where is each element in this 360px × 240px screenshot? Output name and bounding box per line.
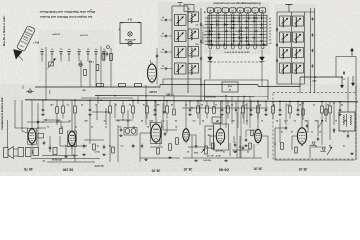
rail D segment — [182, 107, 268, 109]
svg-text:a3: a3 — [162, 33, 164, 35]
ground below Cd190 — [189, 113, 191, 115]
switch contact bar — [211, 33, 212, 36]
switch key hook 6 — [246, 13, 249, 14]
capacitor C30 — [164, 19, 166, 21]
wire drop x243 — [242, 101, 244, 106]
svg-text:+ A18: + A18 — [33, 42, 40, 45]
resistor R75 — [169, 144, 172, 151]
wire x200 v — [199, 103, 201, 125]
wire x75 v — [74, 119, 76, 163]
junction dot dial left — [121, 22, 123, 24]
switch contact bar — [240, 37, 243, 38]
svg-text:ant: ant — [22, 85, 25, 88]
switch coupling dashed line — [210, 61, 262, 63]
switch contact bar — [260, 41, 263, 42]
grid wire horizontal — [205, 27, 268, 29]
wire tube anode — [71, 100, 73, 129]
svg-text:J0 48: J0 48 — [215, 155, 221, 158]
RF coil box L24 — [293, 63, 304, 73]
wire left column e — [110, 48, 112, 87]
junction dot bl — [42, 121, 43, 122]
resistor R99 — [251, 130, 253, 136]
resistor R71 — [93, 144, 96, 150]
capacitor stub C13 — [68, 52, 70, 62]
ground g1 — [83, 153, 85, 155]
wire below resistor x243 — [242, 113, 244, 119]
svg-text:4k7: 4k7 — [50, 104, 53, 107]
wire x254 v — [253, 144, 255, 158]
switch contact bar — [260, 34, 263, 35]
svg-text:5M: 5M — [82, 90, 85, 92]
wire left column a — [45, 47, 47, 100]
grid wire horizontal — [205, 37, 268, 39]
tube V4 screen box — [151, 123, 162, 144]
svg-text:20: 20 — [327, 105, 329, 107]
capacitor C60 — [37, 120, 39, 122]
switch contact bar — [255, 17, 258, 18]
wire x163 v — [162, 103, 164, 130]
wire array drop — [299, 84, 301, 93]
wire x241 v — [240, 112, 242, 158]
svg-text:2M: 2M — [315, 121, 318, 123]
resistor R61 — [56, 107, 59, 114]
antenna triangle symbol — [14, 50, 23, 60]
capacitor C67 — [235, 108, 237, 110]
wire below resistor x167 — [166, 113, 168, 119]
capacitor C64 — [132, 144, 134, 146]
switch contact bar — [233, 20, 234, 23]
svg-text:25: 25 — [201, 105, 203, 107]
svg-text:0m: 0m — [188, 9, 191, 11]
wire cap lead 3 — [161, 68, 164, 70]
svg-text:90: 90 — [147, 126, 149, 128]
switch contact bar — [211, 40, 212, 43]
wire below resistor x198 — [197, 113, 199, 119]
output transformer box — [339, 112, 355, 131]
mixer box M1 — [222, 82, 238, 92]
wire array bottom a — [277, 83, 305, 85]
capacitor C50 — [276, 28, 278, 30]
wire below resistor x207 — [206, 113, 208, 119]
FM feed vertical right — [355, 57, 357, 94]
junction dot cap drop — [279, 101, 281, 103]
RF coil box L12 — [280, 32, 291, 42]
capacitor Cd266 — [265, 108, 267, 110]
wire h130 g — [246, 129, 258, 131]
junction dot out — [274, 143, 275, 144]
svg-text:MM: MM — [208, 129, 212, 131]
wire h120 f — [115, 119, 133, 121]
chain top label box — [184, 5, 194, 12]
wire cap lead 2 — [161, 51, 164, 53]
IF coil box F2 — [175, 31, 187, 42]
wire array rail a — [276, 12, 278, 84]
grid bottom hook — [239, 45, 242, 49]
capacitor C98 — [245, 138, 247, 140]
switch contact bar — [224, 23, 225, 26]
ground g7 — [225, 159, 227, 161]
switch contact bar — [246, 37, 247, 40]
tube V2 — [28, 129, 36, 143]
rail C (AVC line) — [95, 96, 268, 97]
wire h158 l — [140, 157, 180, 159]
wire left column b — [80, 60, 82, 87]
wire av — [229, 143, 231, 156]
RF coil box L23 — [293, 48, 304, 58]
wire x237 v — [236, 112, 238, 158]
ground below Cd340 — [339, 113, 341, 115]
wire dial left notch — [119, 28, 121, 31]
dial lamp box outline — [120, 23, 141, 44]
grid wire vertical pair — [246, 15, 248, 45]
wire drop c x251 — [250, 101, 252, 107]
junction dot cap drop — [154, 100, 156, 102]
wire drop x207 — [206, 101, 208, 106]
svg-text:60: 60 — [109, 145, 111, 147]
resistor R22 — [96, 65, 99, 71]
capacitor C31 — [164, 35, 166, 37]
wire x167 v — [166, 120, 168, 133]
capacitor C74 — [141, 144, 143, 146]
resistor R92 — [295, 147, 298, 153]
grid wire vertical pair — [231, 15, 233, 45]
wire speaker riser — [7, 120, 9, 148]
svg-text:a3: a3 — [185, 105, 187, 107]
junction dot rail 2 — [341, 76, 343, 78]
svg-text:O6 N8: O6 N8 — [219, 168, 229, 172]
wire grid to bus — [261, 62, 263, 86]
svg-text:4n7 1M: 4n7 1M — [207, 155, 214, 158]
switch contact bar — [239, 30, 240, 33]
pot with wiper (left) — [29, 90, 32, 93]
resistor Rd110 — [109, 106, 112, 113]
switch contact bar — [253, 21, 256, 22]
wire tube anode — [257, 101, 259, 127]
svg-text:A B C: A B C — [89, 61, 95, 64]
bottom wire segment left2 — [42, 155, 78, 157]
wire x232 v — [231, 96, 233, 124]
capacitor Cd155 — [154, 108, 156, 110]
switch key box K4 — [230, 8, 236, 13]
wire drop c x298 — [297, 101, 299, 107]
capacitor C51 — [276, 43, 278, 45]
capacitor C63 — [120, 128, 122, 130]
osc coil box G1 — [188, 12, 199, 22]
wire h150 g — [232, 149, 250, 151]
wire x348 — [347, 77, 349, 112]
wire x334 v — [333, 103, 335, 125]
switch contact bar — [233, 40, 234, 43]
svg-text:bei Abgleich mit 468 kHz und S: bei Abgleich mit 468 kHz und Sender — [39, 15, 92, 19]
switch contact bar — [241, 27, 242, 30]
switch contact bar — [211, 27, 212, 30]
wire drop x198 — [197, 101, 199, 106]
junction dot on rail A — [74, 99, 76, 101]
junction dot g2 — [239, 146, 240, 147]
svg-text:4n: 4n — [41, 48, 43, 51]
resistor R65 — [157, 148, 160, 154]
ground below Cd280 — [279, 113, 281, 115]
FM down arrow — [352, 76, 354, 84]
resistor Rd123 — [122, 106, 125, 113]
svg-text:4M: 4M — [208, 134, 211, 137]
svg-text:40: 40 — [171, 104, 173, 107]
wire drop x147 — [146, 101, 148, 106]
wire below resistor x123 — [122, 113, 124, 119]
wire x322 v2 — [321, 119, 323, 146]
trimmer arrow T1 — [48, 59, 56, 69]
resistor R68 — [325, 109, 328, 115]
wire cap lead 1 — [161, 35, 164, 37]
svg-text:0LM0: 0LM0 — [149, 90, 157, 94]
tube V3 outline box — [68, 131, 77, 147]
diode D1 — [312, 142, 315, 145]
wire drop x123 — [122, 100, 124, 106]
junction dot f4 — [145, 95, 146, 96]
switch contact bar — [218, 33, 219, 36]
capacitor C83 — [242, 146, 244, 148]
junction dot r1 — [225, 95, 226, 96]
wire below resistor x75 — [74, 113, 76, 119]
wire antenna lead — [19, 56, 24, 61]
output transformer box b — [26, 148, 32, 157]
wire h112 f — [92, 111, 110, 113]
tube V1 (EC92) — [148, 64, 157, 82]
transformer box c — [33, 148, 39, 156]
svg-text:ELLIYO: ELLIYO — [95, 164, 104, 167]
grid wire horizontal — [205, 40, 268, 42]
svg-text:40: 40 — [87, 48, 89, 51]
wire h147 g — [188, 146, 204, 148]
junction dot cap drop — [250, 100, 252, 102]
resistor Rd75 — [74, 106, 77, 113]
junction dot cap drop — [339, 101, 341, 103]
wire drop c x190 — [189, 101, 191, 108]
RF coil box L21 — [293, 16, 304, 26]
wire tube anode — [31, 100, 33, 127]
wire x348 low — [347, 131, 349, 134]
svg-text:J8 J0: J8 J0 — [152, 169, 161, 173]
switch key hook 4 — [231, 13, 234, 14]
wire x90 v — [89, 115, 91, 144]
wire v8 in — [292, 135, 297, 137]
wire drop x330 — [329, 102, 331, 106]
wire x234 v — [233, 136, 235, 143]
junction dot on rail A — [100, 99, 102, 101]
wire x240 v — [239, 136, 241, 158]
wire x164 — [163, 96, 165, 109]
bottom rail mid — [183, 157, 262, 159]
capacitor C96 — [43, 141, 45, 143]
switch contact bar — [247, 44, 250, 45]
junction dot on rail A — [132, 100, 134, 102]
svg-text:2M: 2M — [157, 105, 160, 107]
svg-text:a5: a5 — [75, 126, 77, 128]
wire tube anode — [220, 101, 222, 127]
wire tube anode — [185, 101, 187, 127]
wire v4 grid — [140, 132, 151, 134]
wire drop x167 — [166, 101, 168, 106]
wire ladder rail left — [171, 6, 173, 93]
wire drop c x155 — [154, 101, 156, 108]
junction dot on rail A — [321, 101, 323, 103]
svg-text:22: 22 — [85, 145, 87, 147]
wire output left — [274, 128, 276, 160]
wire below resistor x147 — [146, 113, 148, 119]
wire x57 v — [56, 100, 58, 107]
switch key box K7 — [252, 8, 258, 13]
switch key hook 2 — [217, 13, 220, 14]
switch contact bar — [209, 30, 210, 33]
junction dot f1 — [105, 111, 106, 112]
svg-text:33: 33 — [91, 126, 93, 128]
wire drop c x222 — [221, 101, 223, 108]
junction dot cap drop — [297, 101, 299, 103]
wire x303 v — [302, 103, 304, 120]
switch contact bar — [233, 33, 234, 36]
resistor Rd63 — [62, 106, 65, 113]
switch contact bar — [238, 21, 241, 22]
svg-text:12: 12 — [129, 105, 131, 107]
wire drop x273 — [272, 101, 274, 106]
svg-text:a6: a6 — [269, 34, 271, 36]
tube V6 screen box — [214, 124, 229, 150]
svg-text:0,1: 0,1 — [67, 105, 70, 107]
svg-text:a8: a8 — [299, 105, 301, 107]
switch contact bar — [224, 43, 225, 46]
wire x98 v2 — [97, 96, 99, 104]
wire left column d — [100, 46, 102, 87]
resistor R67 — [302, 109, 305, 115]
wire array rail b — [291, 12, 293, 84]
FM dipole arrow up — [351, 49, 353, 57]
grid wire vertical pair — [238, 15, 240, 45]
resistor R24 — [102, 53, 105, 60]
junction dot on rail A — [197, 100, 199, 102]
ground below Cd298 — [297, 113, 299, 115]
resistor Rd273 — [272, 106, 275, 113]
rail A (HT bus) — [25, 100, 358, 102]
wire h147 r — [311, 146, 326, 148]
wire drop c x340 — [339, 102, 341, 108]
junction dot f2 — [122, 119, 123, 120]
wire V3 bottom — [71, 149, 73, 156]
paper background — [0, 0, 360, 176]
capacitor C100 — [156, 54, 158, 56]
wire array rail c — [304, 12, 306, 84]
svg-text:70: 70 — [47, 126, 49, 128]
switch contact bar — [232, 24, 235, 25]
capacitor Cd222 — [221, 108, 223, 110]
grid wire vertical pair — [261, 15, 263, 45]
switch contact bar — [210, 24, 213, 25]
capacitor Cd43 — [42, 108, 44, 110]
junction dot on rail A — [257, 100, 259, 102]
switch contact bar — [239, 17, 240, 20]
dashed enclosure (output section) — [273, 93, 356, 160]
grid wire horizontal — [205, 17, 268, 19]
junction dot r3 — [191, 107, 192, 108]
switch key box K5 — [237, 8, 243, 13]
switch key box K8 — [259, 8, 265, 13]
switch contact bar — [254, 17, 255, 20]
switch contact bar — [247, 17, 250, 18]
wire x50 v — [49, 136, 51, 152]
switch contact bar — [240, 31, 243, 32]
wire array rail d — [310, 8, 312, 93]
switch contact bar — [210, 44, 213, 45]
wire x214 v — [213, 101, 215, 107]
diode D2 — [322, 148, 325, 151]
switch contact bar — [254, 37, 255, 40]
switch key box K3 — [222, 8, 228, 13]
ground below Cd251 — [250, 113, 252, 115]
wire tube V2 to transformer — [31, 143, 33, 147]
junction dot e2 — [45, 119, 46, 120]
wire x150 v — [149, 120, 151, 126]
wire h147 f — [150, 146, 163, 148]
wire v6 in — [210, 135, 216, 137]
grid wire vertical pair — [223, 15, 225, 45]
wire x97 v — [96, 104, 98, 120]
capacitor C68 — [306, 124, 308, 126]
wire drop x228 — [227, 101, 229, 106]
resistor R73 — [112, 147, 115, 153]
wire x66 v — [65, 145, 67, 155]
wire x22 v — [21, 100, 23, 128]
capacitor C61 — [312, 33, 314, 34]
svg-text:+ A18 11: + A18 11 — [52, 33, 62, 36]
switch unit enclosure — [205, 80, 269, 100]
wire left bottom h — [15, 127, 28, 129]
capacitor C82 — [234, 143, 236, 145]
wire output bottom — [275, 159, 355, 161]
svg-text:+qr: +qr — [343, 79, 346, 81]
svg-text:0,05 25k: 0,05 25k — [203, 160, 212, 162]
switch contact bar — [261, 17, 262, 20]
wire drop c x43 — [42, 100, 44, 108]
wire h122 left — [27, 121, 70, 123]
grid bottom hook — [209, 45, 212, 49]
capacitor C99 — [285, 126, 287, 128]
trimmer body T1 — [49, 62, 54, 66]
wire drop x110 — [109, 100, 111, 106]
volume pot wiper arrow — [201, 149, 205, 153]
wire h120 left — [43, 119, 60, 121]
wire h130 — [163, 129, 177, 131]
coupling end symbol left — [209, 50, 211, 57]
switch contact bar — [239, 43, 240, 46]
junction dots tube pins — [31, 144, 32, 145]
switch contact bar — [225, 24, 228, 25]
svg-text:Wege über Bandfilter und UKW-B: Wege über Bandfilter und UKW-Baust. — [39, 10, 95, 14]
ground g4 — [351, 152, 353, 154]
wire x174 — [173, 96, 175, 108]
svg-text:NP0: NP0 — [33, 150, 35, 154]
switch contact bar — [245, 27, 248, 28]
capacitor C41 — [200, 39, 202, 41]
tube V6 — [216, 129, 224, 143]
wire v7 out — [261, 135, 268, 137]
switch contact bar — [216, 23, 217, 26]
capacitor C33 — [164, 68, 166, 70]
osc coil box G2 — [188, 29, 199, 39]
svg-text:a5: a5 — [162, 66, 164, 68]
arrow feedback — [327, 147, 332, 155]
svg-text:a7: a7 — [51, 49, 53, 51]
wire h146 — [60, 145, 84, 147]
capacitor C62 — [312, 49, 314, 50]
